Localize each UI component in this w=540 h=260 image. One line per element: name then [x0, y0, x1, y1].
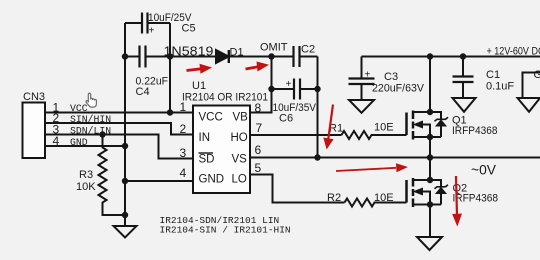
svg-text:GND: GND	[70, 137, 88, 148]
svg-text:SIN/HIN: SIN/HIN	[70, 114, 111, 125]
capacitor C5	[125, 22, 170, 24]
wire VCC row	[45, 112, 193, 114]
wire VCC rail (right of C4/C5)	[169, 23, 171, 113]
svg-text:C3: C3	[384, 71, 398, 83]
svg-text:7: 7	[256, 121, 263, 135]
resistor R1	[342, 131, 407, 139]
svg-text:5: 5	[255, 161, 262, 175]
svg-text:SDN/LIN: SDN/LIN	[70, 125, 111, 136]
svg-text:C4: C4	[136, 86, 150, 98]
red arrow along output	[336, 168, 396, 171]
svg-text:VCC: VCC	[70, 103, 88, 114]
svg-text:CN3: CN3	[23, 91, 45, 103]
svg-text:4: 4	[180, 166, 187, 180]
svg-text:C6: C6	[279, 113, 293, 125]
op-amp U1 box	[193, 106, 250, 194]
capacitor C6	[272, 88, 318, 90]
svg-text:C5: C5	[182, 23, 196, 35]
svg-text:IRFP4368: IRFP4368	[453, 193, 499, 205]
svg-text:D1: D1	[230, 47, 244, 59]
wire VB rail to IC pin8	[250, 57, 272, 113]
svg-text:VS: VS	[232, 154, 248, 166]
ground (C3)	[349, 100, 374, 113]
wire GND row	[45, 145, 125, 147]
svg-text:HO: HO	[231, 132, 248, 144]
red annotation arrows	[187, 62, 463, 227]
resistor R2	[345, 199, 407, 207]
svg-text:1: 1	[180, 100, 187, 114]
svg-text:C1: C1	[486, 69, 500, 81]
svg-text:1N5819: 1N5819	[164, 45, 214, 59]
red arrow at D1	[187, 69, 202, 71]
svg-text:U1: U1	[192, 80, 206, 92]
svg-text:+ 12V-60V DC: + 12V-60V DC	[487, 46, 540, 58]
connector CN3	[23, 103, 46, 159]
red arrow down at VS	[328, 105, 333, 142]
ground (CN3/R3)	[114, 226, 137, 238]
capacitor C4	[125, 56, 170, 58]
svg-text:2: 2	[180, 122, 187, 136]
svg-text:~0V: ~0V	[471, 162, 497, 178]
svg-text:+: +	[286, 79, 292, 90]
svg-text:GND: GND	[534, 69, 540, 81]
svg-text:R2: R2	[327, 192, 341, 204]
svg-text:6: 6	[255, 143, 262, 157]
svg-text:VCC: VCC	[199, 112, 223, 124]
wire HO pin7 to R1	[250, 134, 342, 136]
svg-text:220uF/63V: 220uF/63V	[372, 83, 425, 95]
svg-text:8: 8	[255, 101, 262, 115]
capacitor C1	[462, 57, 464, 99]
ground (right edge GND)	[523, 73, 540, 99]
svg-text:GND: GND	[199, 174, 225, 186]
svg-text:IR2104-SIN / IR2101-HIN: IR2104-SIN / IR2101-HIN	[160, 225, 291, 236]
ground (C1)	[453, 98, 476, 112]
resistor R3	[99, 135, 126, 216]
svg-text:10K: 10K	[76, 181, 96, 193]
transistor Q1	[407, 57, 449, 158]
svg-text:IRFP4368: IRFP4368	[452, 125, 498, 137]
red arrow down at Q2	[456, 176, 457, 216]
wire IC pin4 to rail	[125, 180, 193, 182]
wire left ground rail	[124, 23, 126, 226]
wire SDN/LIN row	[45, 135, 193, 159]
svg-text:10E: 10E	[374, 192, 394, 204]
transistor Q2	[407, 158, 449, 238]
svg-text:+: +	[365, 70, 371, 81]
hand cursor	[86, 93, 96, 107]
svg-text:0.1uF: 0.1uF	[486, 81, 514, 93]
svg-text:4: 4	[53, 134, 60, 148]
wire VS rail	[317, 57, 319, 158]
wire VS output line	[250, 157, 540, 159]
svg-text:OMIT: OMIT	[260, 42, 288, 54]
svg-text:3: 3	[180, 146, 187, 160]
wire D1 row	[170, 56, 294, 58]
svg-text:+: +	[149, 26, 155, 37]
svg-text:R3: R3	[79, 169, 93, 181]
svg-text:IN: IN	[199, 132, 211, 144]
power rail +12V-60V	[362, 56, 540, 58]
svg-text:SD: SD	[199, 154, 215, 166]
red arrow at OMIT	[246, 67, 259, 69]
ground (Q2 source)	[417, 237, 442, 250]
svg-text:LO: LO	[232, 174, 247, 186]
svg-text:VB: VB	[233, 112, 249, 124]
capacitor C3	[361, 57, 363, 101]
wire LO pin5 to R2	[250, 175, 345, 203]
wire SIN/HIN row	[45, 123, 193, 135]
capacitor C2	[294, 46, 300, 67]
svg-text:C2: C2	[301, 44, 315, 56]
overline SD	[199, 152, 214, 154]
svg-text:10E: 10E	[374, 122, 394, 134]
diode D1	[216, 50, 229, 63]
